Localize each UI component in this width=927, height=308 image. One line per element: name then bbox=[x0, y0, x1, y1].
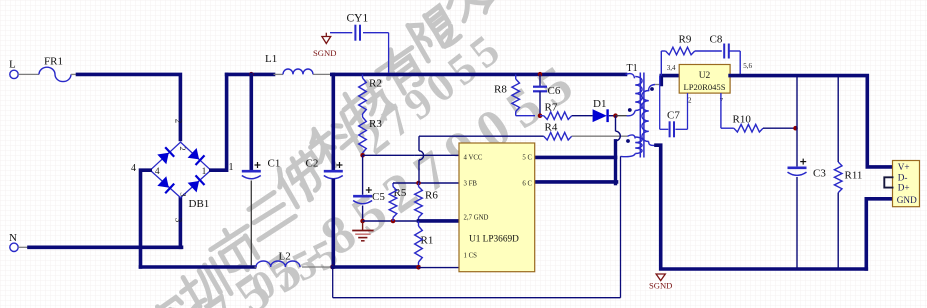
svg-text:2,7 GND: 2,7 GND bbox=[464, 215, 489, 222]
pin label 3 (outside) bbox=[174, 218, 184, 223]
svg-text:C7: C7 bbox=[667, 110, 680, 122]
junction R1 bottom / CS bbox=[416, 265, 421, 270]
transformer T1 core bbox=[627, 63, 644, 158]
wire N to bottom rail bbox=[141, 265, 255, 269]
diode D1 bbox=[593, 98, 616, 122]
svg-text:R8: R8 bbox=[494, 84, 507, 96]
svg-text:C2: C2 bbox=[306, 158, 319, 170]
svg-text:SGND: SGND bbox=[649, 280, 672, 290]
junction C6 bottom / R7 bbox=[538, 113, 543, 118]
svg-text:T1: T1 bbox=[627, 63, 638, 74]
wire top rail (L1 to T1 primary) bbox=[332, 73, 626, 77]
wire FB to R5 bbox=[393, 182, 459, 184]
svg-text:U1 LP3669D: U1 LP3669D bbox=[469, 235, 519, 245]
bridge rectifier DB1 bbox=[150, 142, 211, 210]
svg-text:R4: R4 bbox=[545, 122, 558, 134]
node L (line input terminal) bbox=[9, 59, 18, 79]
junction D1 cathode / drain bbox=[613, 113, 618, 118]
capacitor C7 bbox=[660, 76, 688, 138]
capacitor C3 bbox=[788, 76, 827, 269]
svg-text:R2: R2 bbox=[369, 78, 382, 90]
connector J1 output bbox=[893, 161, 920, 207]
wire R4 to FB node (with hop) bbox=[419, 136, 544, 183]
voltage regulator U2 LP20R045S bbox=[667, 62, 753, 105]
svg-text:D+: D+ bbox=[898, 182, 910, 192]
wire C2 bottom lead bbox=[331, 181, 335, 268]
svg-text:4: 4 bbox=[131, 163, 136, 174]
wire bridge pin 1 to DC+ riser bbox=[211, 74, 234, 173]
wire secondary bottom to SGND rail bbox=[656, 145, 866, 269]
resistor R5 bbox=[389, 183, 407, 221]
wire GND pin thick bbox=[419, 219, 460, 223]
svg-text:C8: C8 bbox=[710, 34, 723, 46]
svg-text:2: 2 bbox=[688, 96, 692, 104]
junction C6 top bbox=[538, 72, 543, 77]
svg-text:R1: R1 bbox=[421, 235, 434, 247]
wire C2 top lead bbox=[331, 74, 335, 169]
wire VCC node to U1 pin 4 bbox=[363, 154, 459, 156]
svg-text:1: 1 bbox=[229, 162, 234, 173]
wire U2 output rail bbox=[730, 76, 892, 167]
watermark phone number bbox=[163, 22, 592, 308]
resistor R8 bbox=[494, 74, 535, 115]
wire D- D+ short bracket bbox=[884, 177, 892, 187]
svg-text:D-: D- bbox=[898, 172, 908, 182]
svg-text:FR1: FR1 bbox=[44, 56, 63, 68]
svg-text:R11: R11 bbox=[845, 170, 863, 182]
svg-text:C5: C5 bbox=[372, 191, 385, 203]
resistor R6 bbox=[415, 183, 439, 221]
svg-text:DB1: DB1 bbox=[189, 198, 210, 210]
svg-text:L: L bbox=[9, 59, 16, 71]
resistor R11 bbox=[834, 76, 862, 269]
svg-text:R9: R9 bbox=[679, 34, 692, 46]
wire L terminal to FR1 bbox=[18, 73, 39, 75]
wire FR1 to bridge pin 2 (thick L rail) bbox=[78, 74, 181, 139]
wire N stub bbox=[18, 246, 29, 248]
wire R4 to aux winding (gray) bbox=[572, 135, 628, 137]
transformer T1 secondary winding bbox=[642, 85, 656, 146]
wire N to bridge pin 3 bbox=[29, 246, 182, 250]
ground SGND (CY1) bbox=[313, 33, 336, 58]
svg-text:D1: D1 bbox=[593, 98, 606, 110]
inductor L2 bbox=[255, 251, 333, 268]
svg-text:C1: C1 bbox=[268, 158, 281, 170]
capacitor C8 bbox=[710, 34, 741, 75]
svg-text:4 VCC: 4 VCC bbox=[464, 155, 483, 162]
svg-text:GND: GND bbox=[897, 195, 917, 205]
wire ground to R5 R6 bbox=[363, 220, 419, 222]
resistor R3 bbox=[359, 117, 383, 155]
svg-text:2: 2 bbox=[178, 146, 188, 150]
wire DC+ top rail (bridge to L1) bbox=[227, 73, 274, 77]
capacitor C1 bbox=[242, 158, 281, 179]
junction R10 / C3 node bbox=[793, 126, 798, 131]
svg-text:R6: R6 bbox=[425, 190, 438, 202]
junction R6 top / FB bbox=[416, 181, 421, 186]
junction R3 bottom / VCC wire bbox=[360, 153, 365, 158]
junction C1 top bbox=[249, 72, 254, 77]
svg-text:1: 1 bbox=[202, 167, 207, 177]
wire primary bottom bbox=[616, 115, 627, 117]
wire CS to U1 pin 1 bbox=[419, 267, 460, 269]
resistor R2 bbox=[359, 74, 382, 117]
svg-text:3: 3 bbox=[178, 192, 188, 196]
wire C1 top lead bbox=[250, 74, 254, 169]
svg-text:2: 2 bbox=[173, 119, 183, 124]
svg-text:1 CS: 1 CS bbox=[464, 253, 478, 260]
wire U1 pin 6 to drain bbox=[535, 180, 617, 184]
junction C2 bottom / rail bbox=[330, 265, 335, 270]
svg-text:LP20R045S: LP20R045S bbox=[683, 82, 725, 92]
capacitor CY1 bbox=[330, 13, 389, 74]
fuse FR1 bbox=[39, 56, 78, 82]
svg-text:V+: V+ bbox=[898, 162, 910, 172]
transformer T1 primary winding bbox=[626, 74, 643, 116]
svg-text:CY1: CY1 bbox=[347, 13, 369, 25]
svg-text:C6: C6 bbox=[548, 85, 561, 97]
wire U1 pin 5 to drain bbox=[535, 156, 616, 160]
svg-text:3: 3 bbox=[174, 218, 184, 223]
svg-text:5,6: 5,6 bbox=[743, 62, 752, 70]
svg-text:C3: C3 bbox=[813, 168, 826, 180]
wire GND rail to connector bbox=[866, 199, 892, 269]
junction R5 bottom bbox=[391, 219, 396, 224]
op-amp U1 (controller LP3669D) bbox=[459, 143, 535, 272]
resistor R7 bbox=[540, 102, 593, 120]
resistor R9 bbox=[661, 34, 722, 76]
svg-text:5 C: 5 C bbox=[522, 155, 532, 162]
wire aux bottom return bbox=[333, 156, 621, 297]
capacitor C5 bbox=[353, 155, 385, 221]
junction ground node bbox=[360, 219, 365, 224]
pin label 2 (outside) bbox=[173, 119, 183, 124]
svg-text:3 FB: 3 FB bbox=[464, 180, 478, 187]
svg-text:3,4: 3,4 bbox=[667, 64, 676, 72]
wire C1 bottom lead bbox=[250, 181, 252, 266]
wire drain vertical (with hop) bbox=[616, 116, 621, 184]
svg-text:R3: R3 bbox=[369, 118, 382, 130]
svg-text:4: 4 bbox=[155, 167, 160, 177]
svg-text:6 C: 6 C bbox=[522, 180, 532, 187]
capacitor C2 bbox=[306, 158, 343, 179]
watermark company name (hanzi) bbox=[142, 0, 496, 308]
transformer T1 auxiliary winding bbox=[621, 135, 643, 157]
resistor R4 bbox=[544, 122, 572, 141]
resistor R1 bbox=[415, 221, 434, 267]
wire bridge pin 3 vertical bbox=[179, 199, 183, 248]
svg-text:N: N bbox=[9, 232, 17, 244]
svg-text:L1: L1 bbox=[265, 53, 277, 65]
capacitor C6 bbox=[533, 74, 561, 115]
wire bridge pin 4 to bottom rail bbox=[131, 163, 150, 267]
inductor L1 bbox=[265, 53, 332, 74]
ground (primary) bbox=[352, 221, 373, 241]
node N (neutral terminal) bbox=[9, 232, 18, 252]
svg-text:U2: U2 bbox=[699, 71, 711, 81]
resistor R10 bbox=[721, 93, 796, 132]
ground SGND (secondary) bbox=[649, 274, 672, 290]
wire bottom rail (C2 to R1) bbox=[333, 265, 419, 269]
wire secondary top to U2 input bbox=[655, 76, 679, 85]
svg-text:SGND: SGND bbox=[313, 48, 336, 58]
